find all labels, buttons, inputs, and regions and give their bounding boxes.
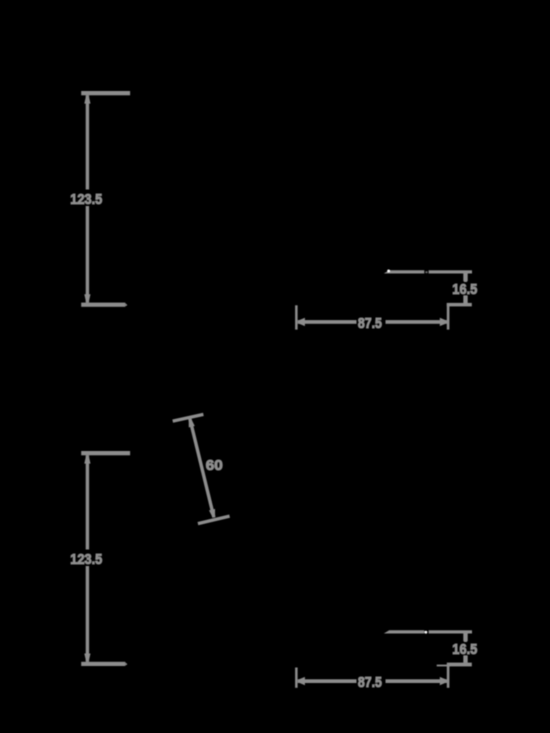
dimension D5 arrowhead down	[84, 654, 90, 662]
dimension D3 line right segment	[386, 320, 447, 324]
dimension D1 line upper segment	[86, 95, 89, 189]
dimension D5 bottom extension line tapered tip	[125, 662, 127, 666]
dimension D4 arrowhead lower	[209, 509, 215, 518]
dimension D3 arrowhead right	[440, 318, 447, 326]
dimension D4 arrowhead upper	[189, 419, 195, 428]
dimension D5 line lower segment	[86, 566, 89, 662]
dimension D5 arrowhead up	[84, 455, 90, 463]
dimension D7 arrowhead right	[440, 677, 447, 685]
svg-text:16.5: 16.5	[452, 641, 477, 658]
dimension D3 (87.5, top-right horizontal) right extension line	[447, 303, 450, 330]
dimension D1 line lower segment	[86, 206, 89, 303]
dimension D5 (123.5, bottom-left vertical) top extension line	[81, 451, 130, 455]
dimension D6 arrowhead down	[463, 655, 467, 662]
dimension D2 top extension line right segment	[429, 270, 472, 273]
dimension D1 arrowhead up	[84, 95, 90, 103]
dimension D7 left extension tick	[295, 668, 298, 688]
dimension D6 (16.5, bottom-right vertical) top extension line left segment	[384, 630, 425, 633]
dimension D1 bottom extension line tapered tip	[125, 303, 127, 307]
dimension D6 bottom extension line	[447, 663, 472, 667]
dimension D5 line upper segment	[86, 455, 89, 549]
dimension D2 extension line gap dot	[425, 271, 427, 273]
svg-text:16.5: 16.5	[452, 281, 477, 298]
svg-text:87.5: 87.5	[358, 674, 382, 691]
dimension D6 extension line gap dot (white)	[425, 631, 428, 634]
svg-text:87.5: 87.5	[358, 315, 382, 332]
dimension D4 bottom extension line	[198, 516, 230, 524]
dimension D7 line left segment	[298, 679, 357, 683]
dimension D2 vertex dot (white)	[387, 270, 390, 273]
dimension D4 line	[190, 419, 214, 518]
svg-text:123.5: 123.5	[70, 191, 102, 208]
dimension D6 line upper segment	[464, 633, 467, 642]
dimension D3 arrowhead left	[298, 318, 305, 326]
dimension D3 left extension tick	[295, 305, 298, 329]
dimension D1 bottom extension line	[81, 303, 125, 307]
dimension D1 (123.5, top-left vertical) top extension line	[81, 91, 130, 95]
dimension D7 line right segment	[386, 679, 447, 683]
dimension D2 arrowhead up	[463, 273, 467, 281]
dimension D2 (16.5, top-right vertical) top extension line left segment	[384, 270, 425, 273]
dimension D6 extra object edge segment	[437, 665, 451, 667]
dimension D3 line left segment	[298, 320, 357, 324]
dimension D2 bottom extension line	[447, 303, 472, 307]
svg-text:60: 60	[206, 457, 223, 474]
dimension D7 arrowhead left	[298, 677, 305, 685]
dimension D7 (87.5, bottom-right horizontal) right extension line	[447, 666, 450, 688]
svg-text:123.5: 123.5	[70, 551, 102, 568]
dimension D6 line lower segment	[464, 655, 467, 662]
dimension D4 (60, diagonal) top extension line	[173, 414, 204, 421]
dimension D6 top extension line right segment	[429, 630, 472, 633]
dimension D1 arrowhead down	[84, 294, 90, 302]
dimension D2 line upper segment	[464, 273, 467, 282]
dimension D6 arrowhead up	[463, 633, 467, 641]
dimension D2 line lower segment	[464, 295, 467, 302]
dimension D2 arrowhead down	[463, 295, 467, 303]
dimension D5 bottom extension line	[81, 662, 125, 666]
